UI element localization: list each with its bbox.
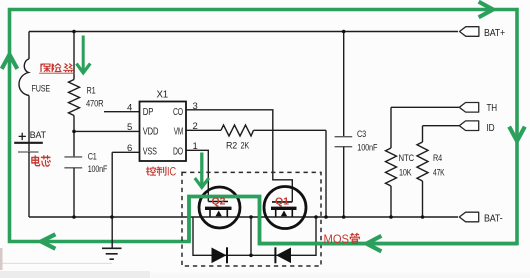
svg-text:470R: 470R (86, 99, 104, 110)
arrow: green up (left edge) (3, 55, 17, 68)
svg-text:47K: 47K (433, 168, 445, 179)
wire: R1 top lead (73, 32, 75, 80)
wire: diode centre tap (250, 217, 252, 255)
arrow: green down at R1 (77, 36, 89, 73)
wire: C3 top lead (343, 32, 345, 137)
svg-text:ID: ID (487, 122, 495, 134)
label 控制IC (control IC, red) (146, 167, 166, 175)
svg-text:VM: VM (174, 127, 184, 138)
connector tag TH (459, 103, 478, 113)
arrow: green down (right edge) (510, 129, 524, 142)
wire: NTC top lead (390, 107, 392, 148)
svg-text:2: 2 (193, 121, 198, 132)
ground (102, 248, 122, 259)
resistor R4 47K (417, 142, 428, 181)
svg-text:X1: X1 (157, 90, 169, 101)
wire: C3 bottom lead (343, 147, 345, 217)
arrow: green right (top edge) (481, 3, 494, 17)
battery plus sign (19, 133, 26, 140)
IC X1 body (140, 102, 187, 162)
label 保险丝 (fuse, red) (40, 64, 75, 73)
resistor R2 2K (221, 125, 254, 136)
connector tag ID (459, 121, 478, 131)
svg-text:R2: R2 (226, 141, 237, 152)
fuse FUSE (19, 59, 29, 96)
svg-text:DP: DP (143, 107, 154, 118)
svg-text:5: 5 (127, 122, 132, 133)
svg-text:1: 1 (193, 141, 198, 152)
arrow: green down at DO/Q2 (196, 153, 208, 188)
svg-text:FUSE: FUSE (32, 84, 51, 95)
svg-text:VSS: VSS (143, 147, 157, 158)
wire: BAT- bottom rail (29, 216, 458, 218)
wire: BAT+ top rail (29, 31, 458, 33)
wire: CO pin 3 to Q1 gate (186, 110, 292, 202)
wire: body-diode branch (193, 217, 316, 255)
wire: R2 to BAT- rail (VM sense) (254, 130, 327, 217)
svg-text:3: 3 (193, 101, 198, 112)
svg-text:C3: C3 (357, 129, 366, 140)
transistor Q1 (264, 187, 306, 229)
svg-text:10K: 10K (399, 168, 412, 179)
arrow: green left (bottom right) (367, 237, 380, 251)
wire: VSS pin 6 to ground (112, 152, 139, 247)
wire: R4 bottom lead (422, 181, 424, 217)
svg-text:CO: CO (173, 107, 183, 118)
diode D2 (body diode of Q2, pointing right) (212, 247, 228, 263)
node: junction dots (72, 30, 424, 257)
battery cell BAT plates (14, 142, 43, 144)
wire: DP pin 4 stub (104, 111, 140, 113)
svg-text:NTC: NTC (399, 153, 415, 164)
diode D1 (body diode of Q1, pointing left) (275, 247, 291, 263)
connector tag BAT+ (459, 27, 479, 222)
label 电芯 (battery cell, red) (32, 156, 50, 166)
svg-text:6: 6 (127, 143, 132, 154)
svg-text:MOS: MOS (324, 232, 350, 246)
wire: TH line (391, 106, 459, 108)
wire: NTC bottom lead (390, 186, 392, 217)
wire: R1 bottom to VDD node (73, 116, 75, 132)
svg-text:R1: R1 (87, 86, 96, 97)
wire: DO pin 1 to Q2 gate (186, 150, 208, 201)
wire: VM pin 2 lead (186, 129, 221, 131)
svg-text:IC: IC (167, 167, 176, 179)
svg-text:DO: DO (173, 147, 183, 158)
svg-text:Q1: Q1 (275, 196, 289, 208)
arrow: green left (bottom left) (41, 235, 54, 248)
svg-text:BAT-: BAT- (484, 213, 503, 225)
svg-text:C1: C1 (88, 152, 97, 163)
wire: green detour overlay (over MOSFETs) (189, 197, 517, 244)
svg-text:2K: 2K (241, 141, 250, 152)
wire: C1 bottom lead (73, 168, 75, 217)
resistor R1 470R (69, 80, 80, 116)
thermistor NTC 10K (386, 148, 397, 186)
svg-text:100nF: 100nF (88, 164, 108, 175)
capacitor C3 100nF (335, 137, 353, 147)
svg-text:BAT: BAT (30, 130, 46, 141)
wire: C1 top lead (73, 131, 75, 157)
wire: fuse to battery (28, 96, 30, 153)
svg-text:BAT+: BAT+ (484, 27, 505, 39)
wire: ID line (423, 126, 460, 142)
MOSFET dashed box (182, 172, 321, 266)
wire: fuse top lead (28, 32, 30, 60)
wire: VDD pin 5 (74, 130, 140, 132)
svg-text:R4: R4 (433, 153, 442, 164)
svg-text:4: 4 (127, 103, 132, 114)
transistor Q2 (199, 187, 240, 228)
connector tag BAT- (459, 212, 478, 222)
svg-text:100nF: 100nF (357, 142, 377, 153)
capacitor C1 100nF (64, 157, 82, 168)
svg-text:VDD: VDD (143, 127, 159, 138)
svg-text:Q2: Q2 (212, 196, 226, 208)
svg-text:TH: TH (487, 102, 498, 114)
wire: battery negative to bottom rail (28, 152, 30, 217)
